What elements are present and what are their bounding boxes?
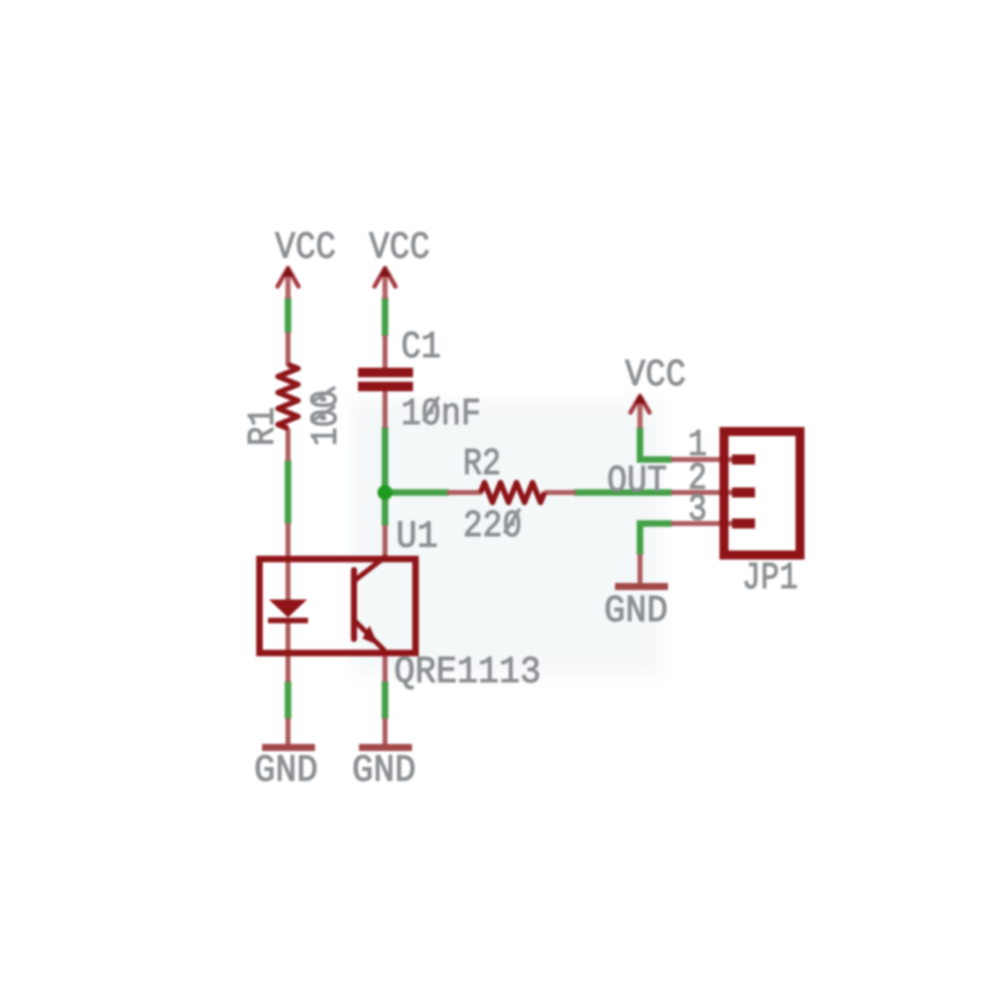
svg-text:R2: R2 [463,443,501,486]
svg-text:VCC: VCC [275,227,336,270]
svg-text:OUT: OUT [607,460,667,503]
svg-text:3: 3 [688,489,707,532]
svg-text:GND: GND [254,750,318,793]
svg-text:QRE1113: QRE1113 [394,651,541,694]
svg-text:100: 100 [305,390,348,446]
svg-text:C1: C1 [401,326,441,369]
svg-text:JP1: JP1 [742,557,798,600]
svg-text:VCC: VCC [625,354,686,397]
svg-text:U1: U1 [396,516,438,559]
svg-text:10nF: 10nF [401,393,481,436]
svg-text:R1: R1 [242,407,285,446]
svg-text:220: 220 [463,505,522,548]
svg-text:GND: GND [352,750,416,793]
svg-text:VCC: VCC [369,227,430,270]
svg-text:GND: GND [604,590,668,633]
